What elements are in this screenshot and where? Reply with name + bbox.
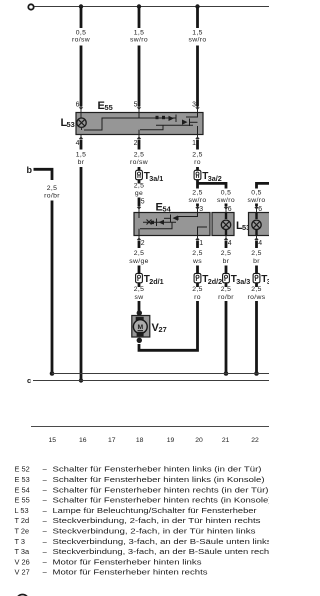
svg-text:sw/ro: sw/ro [217, 197, 235, 204]
wire rail1 horizontal [52, 373, 269, 375]
track number 22 [251, 437, 259, 444]
svg-text:3a/1: 3a/1 [149, 174, 163, 183]
wire 0,5 sw/ro (track 22) [248, 190, 266, 207]
junction a-rail track20 [195, 4, 199, 8]
legend T2e [15, 527, 256, 536]
wire branch to track 21 [198, 183, 227, 188]
svg-text:2: 2 [141, 240, 145, 247]
svg-text:sw/ro: sw/ro [189, 197, 207, 204]
svg-text:3a/3: 3a/3 [236, 277, 250, 286]
track number 17 [108, 437, 116, 444]
svg-text:3: 3 [267, 277, 269, 286]
svg-text:E 54: E 54 [15, 485, 30, 494]
svg-text:2,5: 2,5 [221, 286, 232, 293]
svg-text:–: – [43, 537, 48, 546]
svg-text:ro/sw: ro/sw [130, 159, 148, 166]
track number 21 [222, 437, 230, 444]
connector T3 [253, 273, 271, 286]
svg-text:Steckverbindung, 3-fach, an de: Steckverbindung, 3-fach, an der B-Säule … [53, 537, 270, 546]
junction rail1 track15 [50, 371, 55, 376]
track number 20 [195, 437, 203, 444]
pin 5 E55 [134, 102, 142, 113]
wire 2,5 sw (track 18) [134, 286, 145, 308]
switch E55 body [76, 113, 203, 135]
wire 2,5 ro/br (track 21) [218, 286, 234, 373]
pin 6 lamp box right [254, 206, 262, 213]
svg-text:E 52: E 52 [15, 465, 30, 474]
svg-text:br: br [253, 258, 260, 265]
svg-text:c: c [27, 376, 31, 385]
legend T2d [15, 516, 261, 525]
svg-text:2,5: 2,5 [134, 250, 145, 257]
track number 16 [79, 437, 87, 444]
label V27 [152, 322, 167, 334]
svg-text:T 2e: T 2e [15, 527, 30, 536]
pin 1 E55 [192, 135, 200, 148]
track number 19 [167, 437, 175, 444]
legend E52 [15, 465, 262, 474]
wire 2,5 ge (track 18) [134, 183, 145, 207]
svg-text:–: – [43, 496, 48, 505]
E54 internal wiring [139, 213, 207, 236]
svg-text:2d/2: 2d/2 [208, 277, 222, 286]
junction rail1 track21 [224, 371, 229, 376]
svg-text:–: – [43, 568, 48, 577]
node a terminal circle [28, 4, 33, 9]
motor V27 [132, 308, 150, 343]
svg-text:1: 1 [192, 140, 196, 147]
svg-text:ro: ro [194, 159, 201, 166]
svg-text:T 2d: T 2d [15, 516, 30, 525]
svg-text:sw/ro: sw/ro [189, 37, 207, 44]
svg-text:22: 22 [251, 437, 259, 444]
svg-text:Schalter für Fensterheber hint: Schalter für Fensterheber hinten rechts … [53, 496, 270, 505]
wire 2,5 ws (track 20) [192, 241, 203, 288]
wire 1,5 sw/ro (track 20 upper) [189, 7, 207, 107]
svg-text:2,5: 2,5 [192, 190, 203, 197]
connector T2d/1 [136, 273, 164, 286]
lamp L53 in E55 [77, 113, 86, 131]
svg-text:Motor für Fensterheber hinten: Motor für Fensterheber hinten rechts [53, 568, 208, 577]
svg-text:1,5: 1,5 [76, 152, 87, 159]
wire 2,5 ro/br (track 15) [44, 185, 60, 374]
pin 1 E54 [195, 236, 203, 247]
svg-text:2,5: 2,5 [192, 152, 203, 159]
wire 2,5 ro (track 20) [192, 140, 203, 189]
svg-text:T 3: T 3 [15, 537, 26, 546]
svg-text:ro/ws: ro/ws [248, 294, 266, 301]
wire entry from right edge track 22 [257, 183, 270, 188]
svg-text:16: 16 [79, 437, 87, 444]
pin 6 E55 [76, 102, 84, 113]
svg-text:1,5: 1,5 [192, 29, 203, 36]
wire 2,5 sw/ge (track 18) [129, 241, 149, 288]
svg-text:b: b [27, 165, 33, 175]
pin 2 E54 [137, 236, 145, 247]
svg-text:54: 54 [163, 205, 172, 214]
svg-text:Steckverbindung, 2-fach, in de: Steckverbindung, 2-fach, in der Tür hint… [53, 527, 256, 536]
page marker circle bottom [17, 595, 29, 596]
svg-text:2d/1: 2d/1 [149, 277, 163, 286]
pin 4 lamp box right [254, 236, 262, 247]
svg-text:2,5: 2,5 [134, 152, 145, 159]
svg-text:L 53: L 53 [15, 506, 29, 515]
svg-text:–: – [43, 547, 48, 556]
svg-text:Steckverbindung, 2-fach, in de: Steckverbindung, 2-fach, in der Tür hint… [53, 516, 261, 525]
svg-text:4: 4 [228, 240, 232, 247]
svg-text:T 3a: T 3a [15, 547, 31, 556]
connector T2d/2 [194, 273, 222, 286]
svg-text:Lampe für Beleuchtung/Schalter: Lampe für Beleuchtung/Schalter für Fenst… [53, 506, 258, 515]
svg-text:5: 5 [141, 199, 145, 206]
svg-text:sw/ro: sw/ro [130, 37, 148, 44]
svg-text:–: – [43, 557, 48, 566]
lamp box right body [249, 213, 271, 236]
pin 2 E55 [134, 135, 142, 148]
E55 internal wiring [84, 113, 198, 135]
track number 15 [49, 437, 57, 444]
legend T3 [15, 537, 272, 546]
junction on c-rail [79, 378, 83, 382]
svg-text:–: – [43, 516, 48, 525]
svg-text:V 26: V 26 [15, 557, 30, 566]
legend L53 [15, 506, 258, 515]
lamp box left body [212, 213, 234, 236]
svg-text:17: 17 [108, 437, 116, 444]
wire 2,5 ro/ws (track 22) [248, 286, 266, 373]
svg-text:Schalter für Fensterheber hint: Schalter für Fensterheber hinten links (… [53, 475, 265, 484]
svg-text:1,5: 1,5 [134, 29, 145, 36]
switch E54 body [134, 213, 210, 236]
legend V27 [15, 568, 208, 577]
connector T3a/1 [136, 170, 164, 183]
svg-text:20: 20 [195, 437, 203, 444]
svg-text:–: – [43, 506, 48, 515]
connector T3a/3 [223, 273, 251, 286]
wire a-rail horizontal [35, 6, 270, 8]
svg-text:15: 15 [49, 437, 57, 444]
lamp L53 right [252, 213, 261, 236]
svg-text:–: – [43, 485, 48, 494]
svg-text:V 27: V 27 [15, 568, 30, 577]
current track scale line [31, 426, 269, 428]
wire c-rail horizontal [33, 380, 269, 382]
wire 2,5 ro/sw (track 18) [130, 140, 148, 184]
svg-text:–: – [43, 465, 48, 474]
wire 2,5 br (track 22) [251, 241, 262, 288]
wire 1,5 sw/ro (track 18 upper) [130, 7, 148, 107]
connector T3a/2 [194, 170, 222, 183]
svg-text:0,5: 0,5 [251, 190, 262, 197]
svg-text:ge: ge [135, 190, 143, 197]
pin 6 lamp box left [224, 206, 232, 213]
junction a-rail track16 [79, 4, 83, 8]
svg-text:1: 1 [199, 240, 203, 247]
track number 18 [136, 437, 144, 444]
node c label [27, 376, 31, 385]
svg-text:Schalter für Fensterheber hint: Schalter für Fensterheber hinten links (… [53, 465, 262, 474]
svg-text:0,5: 0,5 [221, 190, 232, 197]
svg-text:sw/ge: sw/ge [129, 258, 149, 265]
svg-text:2,5: 2,5 [192, 250, 203, 257]
svg-text:2,5: 2,5 [134, 183, 145, 190]
pin 5 E54 [137, 199, 145, 213]
svg-text:E 53: E 53 [15, 475, 30, 484]
svg-text:4: 4 [258, 240, 262, 247]
svg-text:2: 2 [134, 140, 138, 147]
svg-text:18: 18 [136, 437, 144, 444]
svg-text:ro/sw: ro/sw [72, 37, 90, 44]
svg-text:19: 19 [167, 437, 175, 444]
wire 1,5 br (track 16) [76, 140, 87, 381]
wire 0,5 ro/sw (track 16 upper) [72, 7, 90, 107]
legend E53 [15, 475, 265, 484]
svg-text:4: 4 [76, 140, 80, 147]
svg-text:2,5: 2,5 [221, 250, 232, 257]
svg-text:sw: sw [134, 294, 143, 301]
svg-text:2,5: 2,5 [251, 250, 262, 257]
svg-text:Steckverbindung, 3-fach, an de: Steckverbindung, 3-fach, an der B-Säule … [53, 547, 270, 556]
svg-text:21: 21 [222, 437, 230, 444]
svg-text:Schalter für Fensterheber hint: Schalter für Fensterheber hinten rechts … [53, 485, 269, 494]
wire 2,5 br (track 21) [221, 241, 232, 288]
svg-text:br: br [223, 258, 230, 265]
svg-text:55: 55 [105, 103, 113, 112]
label L53 (right) [236, 220, 250, 232]
svg-text:–: – [43, 475, 48, 484]
wire 2,5 sw/ro (track 20 lower) [189, 190, 207, 207]
svg-text:2,5: 2,5 [192, 286, 203, 293]
svg-text:0,5: 0,5 [76, 29, 87, 36]
pin 4 lamp box left [224, 236, 232, 247]
svg-text:ro: ro [194, 294, 201, 301]
svg-text:53: 53 [67, 120, 75, 129]
pin 3 E55 [192, 102, 200, 113]
legend E54 [15, 485, 269, 494]
lamp L53 left [221, 213, 230, 236]
pin 3 E54 [195, 206, 203, 213]
svg-text:2,5: 2,5 [134, 286, 145, 293]
svg-text:ws: ws [192, 258, 202, 265]
svg-text:–: – [43, 527, 48, 536]
legend E55 [15, 496, 272, 505]
svg-text:E 55: E 55 [15, 496, 30, 505]
wire 2,5 ro (track 20 to motor) [139, 286, 203, 350]
legend V26 [15, 557, 202, 566]
svg-text:sw/ro: sw/ro [248, 197, 266, 204]
svg-text:3a/2: 3a/2 [208, 174, 222, 183]
svg-text:2,5: 2,5 [47, 185, 58, 192]
svg-text:Motor für Fensterheber hinten: Motor für Fensterheber hinten links [53, 557, 202, 566]
svg-text:ro/br: ro/br [218, 294, 234, 301]
junction a-rail track18 [137, 4, 141, 8]
svg-text:ro/br: ro/br [44, 193, 60, 200]
label E55 [98, 100, 113, 112]
wire 0,5 sw/ro (track 21) [217, 190, 235, 207]
svg-text:27: 27 [159, 325, 167, 334]
label E54 [156, 202, 172, 214]
svg-text:br: br [78, 159, 85, 166]
pin 4 E55 [76, 135, 84, 148]
label L53 (left) [61, 117, 75, 129]
svg-text:2,5: 2,5 [251, 286, 262, 293]
legend T3a [15, 547, 277, 556]
node b entry [27, 165, 53, 180]
junction rail1 track22 [254, 371, 259, 376]
